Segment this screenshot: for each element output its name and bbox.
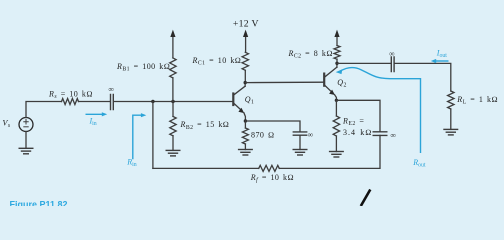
wire Q2 collector riser	[336, 63, 338, 67]
node A (input/feedback tap)	[151, 100, 154, 103]
wire RC1 to collector node	[244, 70, 246, 82]
wire RE2 to ground	[335, 136, 337, 152]
+12 V supply arrow (RC2)	[334, 30, 339, 46]
annotation Iout arrow	[431, 49, 449, 64]
ground (under RE2)	[330, 152, 344, 158]
wire collector node to Q2 base	[245, 81, 324, 83]
svg-text:∞: ∞	[109, 85, 114, 94]
resistor Rf	[250, 165, 294, 183]
resistor RB1	[116, 58, 176, 78]
resistor RE1 870 ohm	[242, 121, 274, 144]
svg-text:∞: ∞	[389, 49, 394, 58]
wire RB1 to rail	[172, 78, 174, 102]
stray pen mark	[361, 190, 371, 207]
wire Vs top to rail	[26, 102, 62, 118]
annotation Rout arrow	[336, 68, 426, 169]
capacitor C2 (emitter bypass, infinite)	[293, 130, 313, 139]
wire Q1 emitter to bypass cap	[245, 121, 300, 132]
wire bottom rail left	[153, 167, 259, 169]
ground (under C2)	[293, 150, 307, 156]
resistor RB2	[170, 102, 230, 136]
svg-text:∞: ∞	[308, 130, 313, 139]
capacitor C3 (output coupling, infinite)	[389, 49, 394, 72]
wire cap to RL corner	[395, 63, 451, 91]
voltage source Vs	[3, 118, 34, 132]
wire C2 to ground	[299, 135, 301, 149]
resistor RC2	[288, 46, 341, 60]
wire RC2 to collector node	[336, 59, 338, 63]
svg-text:870 Ω: 870 Ω	[251, 130, 275, 139]
ground (under RB2)	[166, 150, 180, 156]
svg-text:+12 V: +12 V	[233, 19, 259, 30]
resistor RE2	[333, 100, 372, 137]
wire Vs bottom to ground	[25, 132, 27, 149]
wire RB2 to ground	[172, 136, 174, 151]
wire capacitor to Q1 base	[114, 101, 233, 103]
capacitor C4 (feedback, infinite)	[373, 131, 396, 140]
capacitor C1 (input coupling, infinite)	[109, 85, 114, 110]
wire C4 to bottom rail	[279, 135, 380, 168]
ground (under Vs)	[19, 148, 33, 154]
+12 V supply arrow (RB1)	[170, 30, 175, 58]
svg-text:∞: ∞	[391, 131, 396, 140]
transistor Q2	[324, 67, 347, 100]
resistor RC1	[192, 52, 249, 70]
svg-text:RL = 1 kΩ: RL = 1 kΩ	[456, 95, 498, 106]
node C (Q1 collector)	[244, 81, 247, 84]
node D (Q1 emitter)	[244, 119, 247, 122]
annotation Iin arrow	[86, 112, 108, 127]
wire RE1 to ground	[244, 144, 246, 150]
wire feedback left riser	[152, 102, 154, 169]
wire Rs to capacitor	[79, 101, 110, 103]
svg-text:3.4 kΩ: 3.4 kΩ	[343, 128, 372, 137]
annotation Rin arrow	[126, 113, 146, 168]
ground (under 870 ohm)	[239, 150, 253, 156]
resistor RL	[448, 91, 498, 109]
node B (base bias divider)	[171, 100, 174, 103]
wire Q2 emitter to feedback cap	[336, 100, 380, 132]
wire RL to ground	[450, 109, 452, 129]
node F (Q2 emitter)	[335, 99, 338, 102]
wire Q1 collector riser	[244, 83, 246, 87]
ground (under RL)	[444, 129, 458, 135]
resistor Rs	[48, 89, 93, 104]
+12 V supply arrow (RC1) with label	[233, 19, 259, 53]
svg-text:Figure P11.82: Figure P11.82	[10, 199, 68, 206]
node E (Q2 collector / output)	[335, 62, 338, 65]
wire output to coupling cap	[337, 62, 391, 64]
transistor Q1	[233, 86, 254, 121]
